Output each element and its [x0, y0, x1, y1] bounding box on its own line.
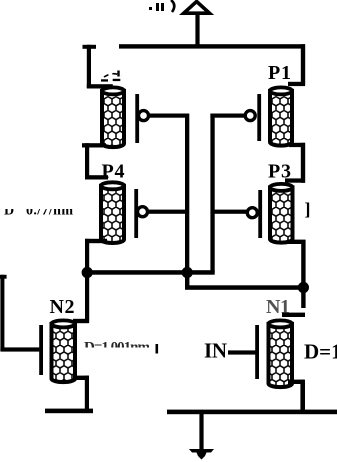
svg-text:P4: P4 — [102, 161, 125, 183]
wire: N2 input drop at left edge — [0, 275, 4, 351]
svg-text:D=1: D=1 — [304, 340, 337, 364]
wire: N1 drain stub — [282, 313, 305, 317]
wire: left rail cap — [83, 45, 97, 49]
svg-text:D: D — [4, 204, 14, 219]
svg-text:0./7/nm: 0./7/nm — [26, 204, 73, 219]
power symbol VDD (open triangle) — [184, 2, 210, 14]
node B junction dot right — [298, 282, 309, 293]
wire: P3 drain drop — [301, 240, 305, 308]
transistor N1 (NMOS CNT) — [255, 320, 292, 387]
transistor P4 (PMOS CNT) — [101, 182, 148, 243]
wire: top VDD rail — [119, 44, 305, 48]
wire: right ground bar — [167, 410, 337, 415]
wire: P4 drain stub — [85, 239, 107, 243]
wire: P1-P3 link — [301, 143, 305, 183]
wire: P2 drain stub — [82, 143, 106, 147]
wire: P2-P4 link — [85, 143, 89, 179]
ground symbol — [189, 449, 214, 460]
wire: N2 gate lead — [0, 347, 39, 351]
transistor N2 (NMOS CNT) — [39, 320, 75, 382]
wire: N1 source drop — [300, 380, 305, 413]
wire: P2 gate lead — [148, 114, 189, 118]
transistor P1 (PMOS CNT) — [245, 87, 292, 145]
wire: N2 source stub — [73, 376, 89, 380]
svg-text:P3: P3 — [268, 161, 291, 183]
label VDD (clipped faint text) — [149, 0, 174, 12]
transistor P3 (PMOS CNT) — [247, 184, 292, 243]
wire: P3 gate lead — [214, 210, 247, 214]
label P2 (faint fragments) — [101, 71, 120, 82]
wire: P1 source stub — [288, 82, 305, 86]
wire: P4 source stub — [85, 175, 108, 179]
wire: N2 drain stub — [73, 319, 89, 323]
node A junction dot left — [82, 267, 93, 278]
wire: P1 drain stub — [289, 143, 305, 147]
svg-text:N1: N1 — [266, 296, 290, 318]
wire: P2 source stub — [87, 84, 113, 88]
dashed ghost lid above P2 — [104, 74, 121, 77]
svg-text:P1: P1 — [268, 62, 291, 84]
wire: N2 drain riser — [85, 273, 89, 323]
wire: P3 drain stub — [287, 240, 306, 244]
wire: cross-coupled right vertical — [210, 114, 214, 273]
wire: P4 gate lead — [147, 210, 187, 214]
wire: P4 drain drop — [85, 239, 89, 273]
node A junction dot centre — [182, 267, 193, 278]
wire: VDD stem — [195, 12, 199, 47]
wire: ground stem — [199, 413, 203, 450]
wire: left ground bar — [45, 409, 93, 414]
wire: N1 gate lead — [228, 350, 257, 354]
transistor P2 (PMOS CNT) — [102, 87, 149, 147]
wire: N2 input cap at left edge — [0, 275, 7, 279]
wire: P2 source drop — [87, 45, 91, 88]
wire: node B horizontal — [185, 285, 305, 290]
svg-text:]: ] — [305, 199, 311, 219]
label D=0.77/nm (faint, top clipped) — [4, 204, 73, 219]
wire: node A to node B step — [185, 272, 189, 288]
svg-text:N2: N2 — [50, 296, 75, 318]
wire: node A horizontal — [84, 270, 215, 275]
svg-text:IN: IN — [204, 339, 227, 363]
wire: N2 source drop — [85, 376, 89, 411]
wire: P1 source drop — [301, 44, 305, 85]
svg-text:D=1.001nm: D=1.001nm — [84, 340, 151, 356]
label D=1.001nm (faint, bottom clipped) — [84, 340, 158, 356]
wire: N1 source stub — [288, 380, 304, 384]
wire: P1 gate lead — [210, 114, 244, 118]
wire: P3 source stub — [285, 178, 305, 182]
wire: cross-coupled left vertical — [185, 114, 189, 289]
